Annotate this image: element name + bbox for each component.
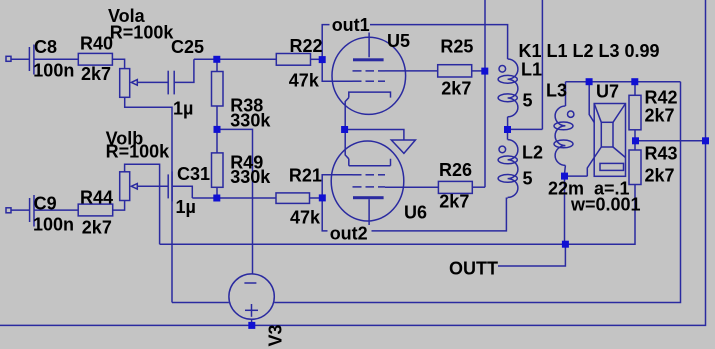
wire xyxy=(564,176,566,244)
wire xyxy=(565,175,588,177)
inductor L1 xyxy=(498,59,518,117)
potentiometer Vola xyxy=(120,69,138,98)
wire xyxy=(311,58,323,60)
svg-text:C8: C8 xyxy=(34,37,57,57)
wire xyxy=(565,185,635,245)
svg-text:R22: R22 xyxy=(290,36,323,56)
wire xyxy=(472,70,485,72)
wire xyxy=(113,201,125,211)
svg-text:5: 5 xyxy=(523,169,533,189)
svg-text:2k7: 2k7 xyxy=(645,166,675,186)
svg-text:2k7: 2k7 xyxy=(441,78,471,98)
wire xyxy=(172,186,192,198)
wire y302 right xyxy=(274,82,680,303)
svg-text:out1: out1 xyxy=(332,15,370,35)
wire xyxy=(565,82,567,106)
svg-text:out2: out2 xyxy=(330,224,368,244)
wire xyxy=(507,117,509,127)
svg-text:47k: 47k xyxy=(289,71,320,91)
svg-text:R=100k: R=100k xyxy=(106,142,171,162)
resistor R26 xyxy=(438,181,472,193)
wire xyxy=(217,129,253,273)
svg-text:1µ: 1µ xyxy=(176,197,196,217)
inductor L2 xyxy=(498,140,518,198)
svg-text:OUTT: OUTT xyxy=(449,259,498,279)
svg-text:C31: C31 xyxy=(177,164,210,184)
speaker U7 xyxy=(587,82,625,177)
tube U5 xyxy=(332,37,406,126)
resistor R44 xyxy=(78,204,113,216)
svg-text:R26: R26 xyxy=(439,160,472,180)
wire xyxy=(192,197,276,199)
wire U5 screen to R25 xyxy=(385,70,438,72)
resistor R25 xyxy=(438,65,472,77)
wire y244 rail xyxy=(160,243,566,245)
wire xyxy=(507,129,509,139)
svg-text:V3: V3 xyxy=(266,324,286,346)
capacitor C31 xyxy=(168,171,172,201)
input terminal B xyxy=(6,208,11,213)
potentiometer Volb xyxy=(120,172,138,201)
wire xyxy=(251,319,253,325)
resistor R43 xyxy=(629,150,641,185)
svg-text:2k7: 2k7 xyxy=(645,106,675,126)
wire out2 net xyxy=(322,198,507,231)
wire OUTT stub xyxy=(498,244,565,266)
resistor R21 xyxy=(276,193,310,204)
wire xyxy=(216,59,218,71)
svg-text:2k7: 2k7 xyxy=(439,192,469,212)
wire xyxy=(35,209,79,211)
wire U5 plate lead xyxy=(368,25,370,58)
svg-text:C25: C25 xyxy=(171,37,204,57)
wire U6 plate lead xyxy=(368,199,370,231)
wire xyxy=(310,197,323,199)
junction nodes xyxy=(213,56,709,329)
capacitor C25 xyxy=(168,71,174,95)
svg-text:R21: R21 xyxy=(289,166,322,186)
svg-text:5: 5 xyxy=(523,90,533,110)
ground xyxy=(391,140,415,153)
wire y81 xyxy=(566,81,681,83)
wire xyxy=(508,128,543,130)
wire vertical rail x485 xyxy=(484,0,486,187)
wire xyxy=(635,140,706,142)
wire xyxy=(634,82,636,96)
input terminal A xyxy=(6,56,11,61)
wire out1 net xyxy=(322,25,507,60)
svg-text:2k7: 2k7 xyxy=(82,217,112,237)
svg-text:R43: R43 xyxy=(645,144,678,164)
resistor R40 xyxy=(78,53,112,65)
svg-text:R44: R44 xyxy=(80,187,113,207)
voltage source V3 xyxy=(229,274,274,319)
wire xyxy=(216,129,218,153)
svg-text:L1: L1 xyxy=(521,60,542,80)
resistor R42 xyxy=(629,95,641,130)
svg-text:R25: R25 xyxy=(440,36,473,56)
wire xyxy=(174,59,194,82)
wire xyxy=(125,164,160,244)
wire xyxy=(564,165,567,173)
resistor R49 xyxy=(212,153,224,187)
wire xyxy=(634,141,636,150)
svg-text:L3: L3 xyxy=(546,81,567,101)
wire U6 grid xyxy=(322,175,352,198)
wire xyxy=(472,186,485,188)
svg-text:U5: U5 xyxy=(387,31,410,51)
wire xyxy=(194,58,276,60)
svg-text:330k: 330k xyxy=(230,167,271,187)
svg-text:R42: R42 xyxy=(645,88,678,108)
wire U6 screen to R26 xyxy=(385,186,438,188)
capacitor C9 xyxy=(30,195,34,227)
svg-text:w=0.001: w=0.001 xyxy=(570,195,641,215)
wire xyxy=(11,58,29,60)
capacitor C8 xyxy=(29,45,34,75)
wire xyxy=(634,130,636,141)
svg-text:L2: L2 xyxy=(522,143,543,163)
wire xyxy=(216,187,218,198)
wire xyxy=(125,97,172,302)
svg-text:C9: C9 xyxy=(34,194,57,214)
tube U6 xyxy=(331,133,404,221)
wire vertical x542 xyxy=(541,0,543,129)
svg-text:100n: 100n xyxy=(33,215,74,235)
svg-text:47k: 47k xyxy=(290,207,321,227)
wire xyxy=(216,106,218,129)
resistor R38 xyxy=(212,72,224,107)
resistor R22 xyxy=(276,54,310,66)
inductor L3 xyxy=(554,106,574,165)
wire xyxy=(11,209,29,211)
wire xyxy=(137,185,168,187)
wire cathodes to ground xyxy=(345,130,404,141)
wire xyxy=(112,59,124,68)
net label out2 xyxy=(328,224,372,244)
svg-text:U6: U6 xyxy=(404,203,427,223)
svg-text:1µ: 1µ xyxy=(173,98,193,118)
svg-text:330k: 330k xyxy=(230,111,271,131)
svg-text:R=100k: R=100k xyxy=(110,23,175,43)
svg-text:U7: U7 xyxy=(596,82,619,102)
svg-text:R40: R40 xyxy=(80,34,113,54)
svg-text:2k7: 2k7 xyxy=(81,64,111,84)
wire U5 grid xyxy=(322,59,352,81)
wire y302 left xyxy=(172,302,229,304)
wire xyxy=(137,81,168,83)
net label out1 xyxy=(330,15,371,35)
svg-text:100n: 100n xyxy=(33,61,74,81)
svg-text:K1 L1 L2 L3 0.99: K1 L1 L2 L3 0.99 xyxy=(519,41,660,61)
wire xyxy=(34,58,78,60)
